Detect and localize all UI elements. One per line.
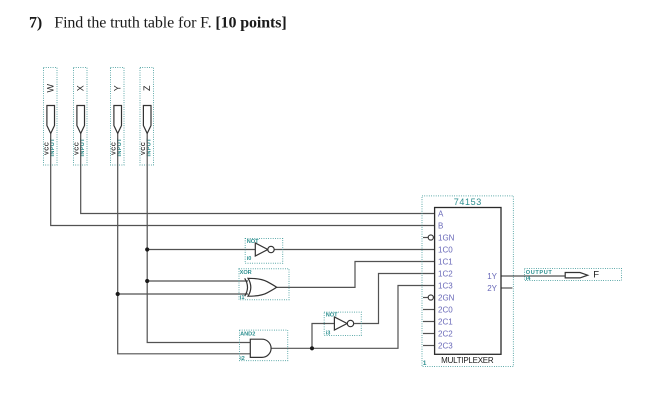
svg-text:74153: 74153 (454, 197, 482, 207)
wire NOT i0 output to MUX 1C0 (274, 249, 434, 251)
wire stub MUX 2C3 (423, 345, 435, 347)
input pin X (74, 68, 88, 166)
svg-text:1GN: 1GN (438, 233, 455, 242)
74153 dotted frame (422, 196, 513, 367)
wire X to MUX pin A (81, 134, 435, 214)
input X pin symbol (77, 106, 85, 134)
wire AND2 output to MUX 1C3 (271, 286, 434, 349)
wire Y branch to XOR lower input (118, 293, 248, 295)
input pin W (44, 68, 58, 166)
svg-text:i1: i1 (240, 295, 245, 301)
NOT gate i3 (324, 312, 361, 337)
wire W to MUX pin B (51, 134, 435, 226)
junction node AND2 out to NOT i3 (310, 346, 314, 350)
wire stub MUX 2GN (423, 297, 428, 299)
svg-text:2GN: 2GN (438, 293, 455, 302)
XOR i1 body (248, 278, 277, 296)
svg-text:1C1: 1C1 (438, 257, 453, 266)
svg-text:i0: i0 (247, 256, 252, 262)
svg-text:Y: Y (113, 85, 123, 91)
svg-text:1Y: 1Y (487, 272, 497, 281)
wire NOT i3 output to MUX 1C2 (354, 274, 435, 324)
wire Z to AND2 upper input (147, 134, 250, 343)
input pin Y (111, 68, 125, 166)
svg-text:W: W (46, 84, 56, 93)
input Z dotted frame (140, 68, 154, 166)
NOT i3 inversion bubble (347, 320, 353, 326)
74153 pin 1GN inversion bubble (428, 235, 433, 240)
input Z pin symbol (143, 106, 151, 134)
wire Y to AND2 lower input (118, 134, 251, 354)
AND2 i2 dotted frame (240, 330, 288, 361)
svg-text:1C2: 1C2 (438, 269, 453, 278)
wire Z branch to NOT i0 input (147, 249, 255, 251)
wire Z branch to XOR upper input (147, 280, 248, 282)
AND2 gate i2 (240, 330, 288, 362)
XOR gate i1 (239, 269, 289, 301)
output F pin symbol (565, 273, 588, 278)
NOT i0 inversion bubble (268, 246, 274, 252)
input X dotted frame (74, 68, 88, 166)
svg-text:A: A (438, 209, 444, 218)
wire stub MUX 2C0 (423, 309, 435, 311)
svg-text:AND2: AND2 (240, 331, 255, 337)
svg-text:2C0: 2C0 (438, 305, 453, 314)
wire stub MUX 2C1 (423, 321, 435, 323)
wire AND2 output branch to NOT i3 input (312, 324, 334, 349)
svg-text:X: X (76, 85, 86, 91)
output connector F (525, 269, 622, 283)
svg-text:B: B (438, 221, 443, 230)
wire XOR output to MUX 1C1 (276, 262, 434, 288)
NOT i3 triangle body (334, 317, 347, 330)
wire MUX 1Y to output connector (501, 275, 565, 277)
junction node Z to XOR (145, 279, 149, 283)
input W dotted frame (44, 68, 58, 166)
wire stub MUX 1GN (423, 237, 428, 239)
svg-text:1C0: 1C0 (438, 245, 453, 254)
junction node Y to XOR (116, 292, 120, 296)
input pin Z (140, 68, 154, 166)
NOT i0 triangle body (255, 243, 267, 256)
NOT i0 dotted frame (245, 239, 283, 264)
svg-text:1C3: 1C3 (438, 281, 453, 290)
wire stub MUX 2C2 (423, 333, 435, 335)
svg-text:2C1: 2C1 (438, 317, 453, 326)
input Y dotted frame (111, 68, 125, 166)
svg-text:XOR: XOR (240, 270, 252, 276)
multiplexer 74153 (422, 196, 513, 367)
svg-text:F: F (593, 270, 599, 281)
AND2 i2 body (250, 339, 271, 357)
svg-text:Z: Z (142, 85, 152, 91)
svg-text:2C2: 2C2 (438, 329, 453, 338)
svg-text:2Y: 2Y (487, 284, 497, 293)
XOR i1 dotted frame (239, 269, 289, 300)
XOR i1 rear curve (245, 278, 248, 296)
74153 body (435, 208, 501, 355)
svg-text:1: 1 (423, 360, 427, 367)
output F dotted frame (525, 269, 622, 281)
svg-text:i3: i3 (326, 331, 331, 337)
74153 pin 2GN inversion bubble (428, 295, 433, 300)
NOT gate i0 (245, 239, 283, 264)
svg-text:MULTIPLEXER: MULTIPLEXER (441, 356, 494, 365)
svg-text:i2: i2 (240, 356, 245, 362)
input W pin symbol (47, 106, 55, 134)
NOT i3 dotted frame (324, 312, 361, 335)
svg-text:OUTPUT: OUTPUT (526, 270, 553, 276)
junction node Z to NOT i0 (145, 247, 149, 251)
input Y pin symbol (114, 106, 122, 134)
wire stub MUX 2Y (501, 287, 512, 289)
svg-text:2C3: 2C3 (438, 341, 453, 350)
svg-text:7)Find the truth table for F.: 7)Find the truth table for F. [10 points… (29, 15, 287, 32)
svg-text:i4: i4 (526, 276, 532, 282)
